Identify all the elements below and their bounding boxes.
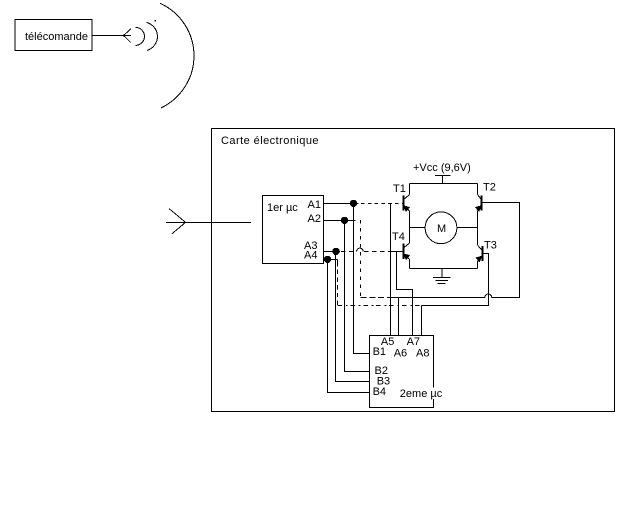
wire motor left bbox=[410, 227, 426, 229]
node A2 junction bbox=[341, 217, 348, 224]
transistor T3 bbox=[476, 245, 482, 268]
wire A2 bbox=[324, 220, 356, 222]
dashed vertical wire from A2 row down bbox=[360, 220, 362, 298]
wire T4 base solid part bbox=[389, 251, 403, 253]
motor M bbox=[425, 212, 457, 244]
box télécomande bbox=[15, 20, 92, 51]
wire T1 emitter down left bridge leg bbox=[409, 211, 411, 243]
wire bottom rail bbox=[410, 268, 478, 270]
svg-text:M: M bbox=[437, 223, 446, 235]
wire A4 bbox=[324, 259, 338, 261]
transistor T2 bbox=[476, 184, 482, 212]
node A4 junction bbox=[324, 256, 331, 263]
receiver antenna wire bbox=[166, 222, 251, 224]
svg-text:1er µc: 1er µc bbox=[267, 202, 298, 214]
transistor T4 bbox=[404, 243, 410, 269]
radio wave arc 3 bbox=[160, 3, 194, 108]
wire A6 vertical down to 2eme µc bbox=[398, 298, 400, 336]
stray dot near arc 2 bbox=[154, 20, 156, 22]
receiver antenna lower arm bbox=[172, 223, 185, 234]
microcontroller U2 2eme µc bbox=[370, 336, 434, 408]
wire row A right part to T2 bbox=[482, 203, 520, 298]
emitter antenna upper arm bbox=[124, 29, 131, 36]
svg-text:T3: T3 bbox=[484, 240, 497, 252]
wire A3 stem down to B3 bbox=[336, 252, 370, 382]
svg-text:Carte électronique: Carte électronique bbox=[221, 135, 319, 147]
power Vcc bar bbox=[435, 175, 451, 177]
dashed wire A3 to T4 base (right of hop) bbox=[364, 251, 390, 253]
svg-text:A2: A2 bbox=[308, 213, 321, 225]
svg-text:B4: B4 bbox=[373, 386, 386, 398]
wire motor right bbox=[457, 227, 478, 229]
svg-text:B1: B1 bbox=[373, 346, 386, 358]
wire T2 emitter down right bridge leg bbox=[477, 211, 479, 245]
svg-text:télécomande: télécomande bbox=[25, 31, 88, 43]
svg-text:+Vcc (9,6V): +Vcc (9,6V) bbox=[413, 162, 471, 174]
receiver antenna upper arm bbox=[169, 209, 185, 223]
node A3 junction bbox=[332, 248, 339, 255]
wire hop over dashed vertical bbox=[357, 248, 364, 251]
wire A4 corner stub down bbox=[337, 260, 339, 263]
label 2eme µc background bbox=[399, 388, 441, 400]
svg-text:T4: T4 bbox=[392, 231, 405, 243]
svg-text:T1: T1 bbox=[393, 183, 406, 195]
dashed wire A3 to T4 base (left of hop) bbox=[341, 251, 357, 253]
wire A3 bbox=[324, 251, 340, 253]
wire row A solid left part bbox=[387, 297, 485, 299]
transistor T1 bbox=[404, 184, 410, 212]
emitter antenna lower arm bbox=[124, 36, 131, 43]
wire A2 stem down to B2 bbox=[345, 221, 370, 372]
svg-text:2eme µc: 2eme µc bbox=[400, 388, 443, 400]
svg-text:A6: A6 bbox=[394, 348, 407, 360]
dashed horizontal wire A4 to T3 row bbox=[338, 305, 422, 307]
wire A5 vertical from A1 row to 2eme µc bbox=[390, 204, 392, 336]
dashed wire A1 to T1 base bbox=[361, 203, 403, 205]
wire A1 stem down to B1 bbox=[354, 204, 370, 354]
wire A1 bbox=[324, 203, 359, 205]
svg-text:T2: T2 bbox=[483, 182, 496, 194]
wire A4 stem down to B4 bbox=[328, 260, 370, 393]
svg-text:A8: A8 bbox=[416, 348, 429, 360]
dashed vertical wire A4 down bbox=[337, 262, 339, 306]
emitter antenna arrowhead bbox=[122, 34, 125, 37]
radio wave arc 2 bbox=[146, 22, 157, 50]
svg-text:A4: A4 bbox=[304, 249, 317, 261]
wire A8 vertical down to 2eme µc bbox=[421, 306, 423, 336]
svg-text:A7: A7 bbox=[407, 336, 420, 348]
box Carte électronique bbox=[212, 129, 615, 412]
power Vcc stem bbox=[442, 176, 444, 184]
radio wave arc 1 bbox=[135, 27, 144, 45]
wire top rail bbox=[410, 183, 478, 185]
wire T4 base down jog to A7 bbox=[397, 252, 413, 336]
wire télécomande to emitter antenna bbox=[92, 35, 131, 37]
svg-text:A1: A1 bbox=[308, 199, 321, 211]
microcontroller U1 1er µc bbox=[263, 196, 324, 264]
wire hop over T3 vertical bbox=[485, 294, 492, 297]
wire T3 base to A8 bbox=[422, 254, 489, 306]
node A1 junction bbox=[350, 200, 357, 207]
dashed wire row A toward A5 vertical bbox=[361, 297, 388, 299]
ground bbox=[433, 269, 451, 284]
